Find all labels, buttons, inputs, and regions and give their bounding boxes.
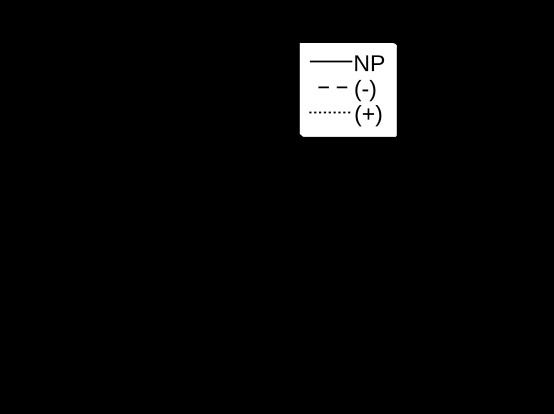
legend label (-) [355, 80, 375, 101]
legend dashed line sample (-) [318, 86, 347, 88]
legend box [300, 43, 397, 137]
legend label NP [355, 55, 384, 71]
legend dotted line sample (+) [309, 112, 350, 114]
legend label (+) [356, 105, 382, 126]
legend solid line sample (NP) [310, 61, 352, 63]
